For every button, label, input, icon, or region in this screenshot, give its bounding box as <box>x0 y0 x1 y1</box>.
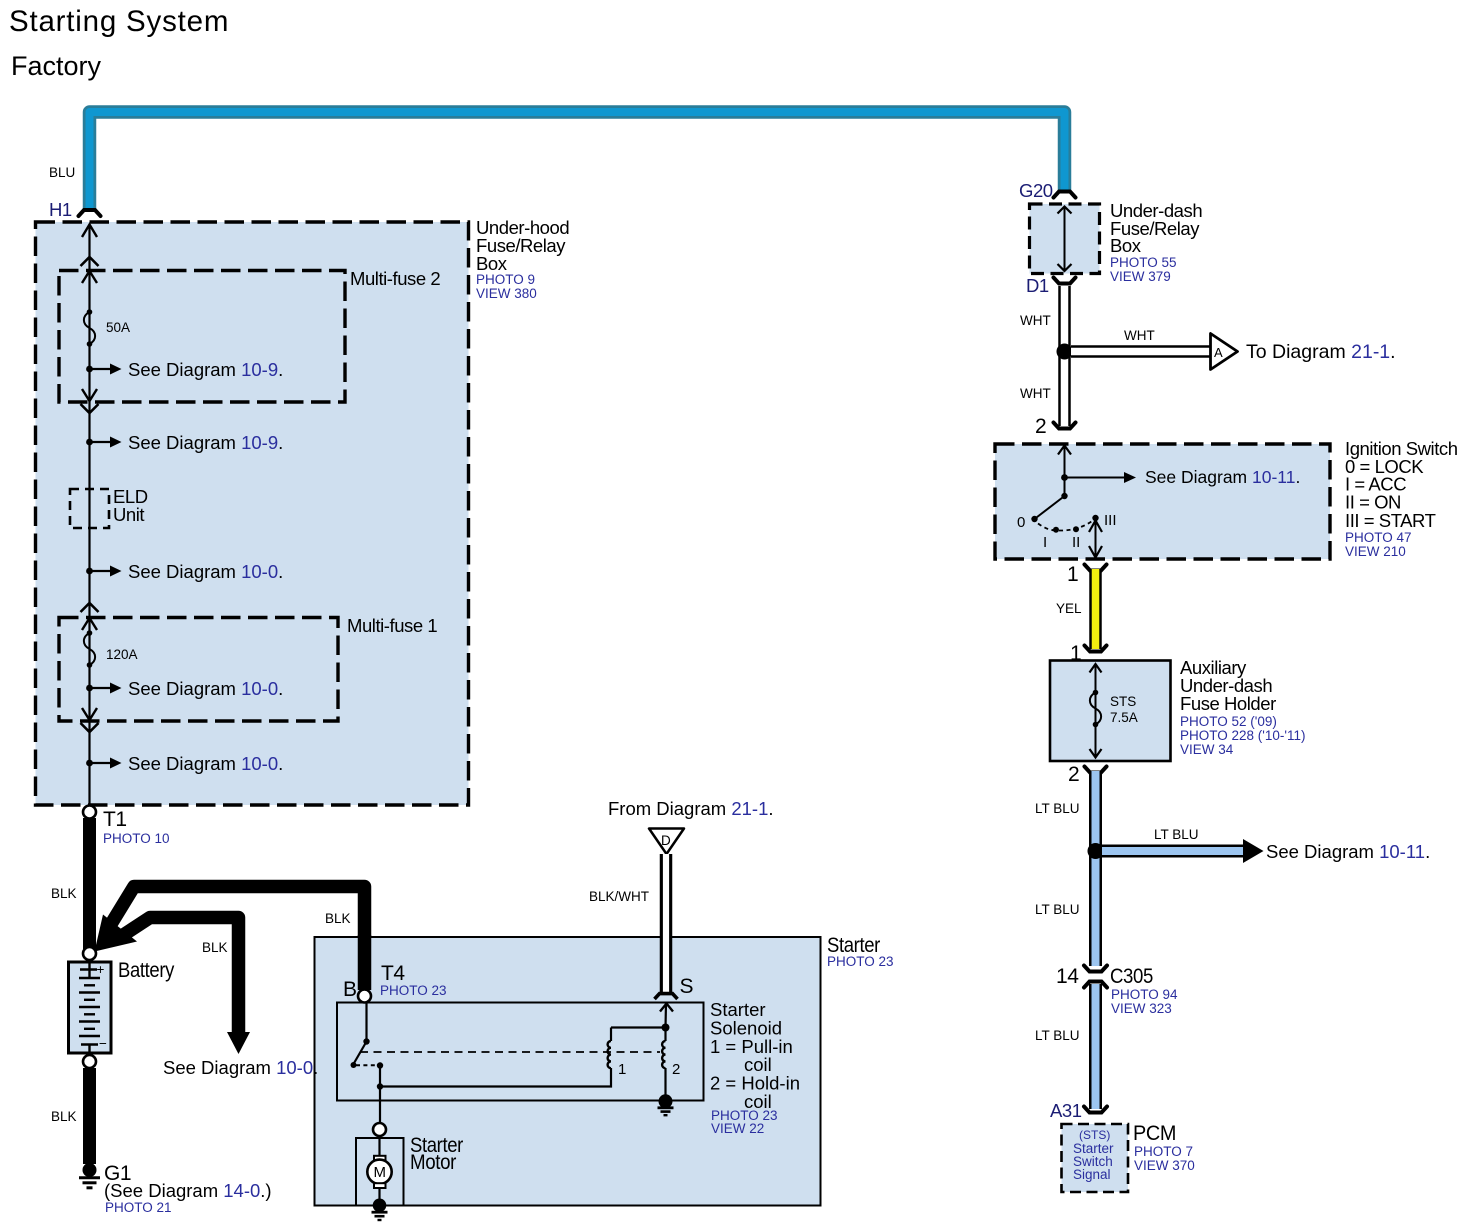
arrowhead into battery positive <box>95 915 138 952</box>
connector 2 at ignition switch <box>1035 415 1076 438</box>
svg-text:PHOTO 55: PHOTO 55 <box>1110 255 1177 270</box>
wire BLK into starter (vertical part over box) <box>358 935 372 990</box>
svg-text:PHOTO 228 ('10-'11): PHOTO 228 ('10-'11) <box>1180 728 1305 743</box>
wire hop chevron below multi-fuse 2 <box>81 404 99 413</box>
svg-text:M: M <box>374 1164 387 1181</box>
svg-text:PHOTO 23: PHOTO 23 <box>827 954 894 969</box>
svg-text:STS: STS <box>1110 694 1136 709</box>
arrowhead up below H1 <box>82 225 97 238</box>
svg-text:PHOTO 23: PHOTO 23 <box>380 983 447 998</box>
solenoid switch from B <box>351 1003 384 1090</box>
svg-text:VIEW 370: VIEW 370 <box>1134 1158 1195 1173</box>
svg-text:Unit: Unit <box>113 504 144 525</box>
wire hop chevron above multi-fuse 2 <box>81 257 99 266</box>
branch see diagram 10-0 (inside multi-fuse 1) <box>86 678 283 699</box>
svg-text:BLK/WHT: BLK/WHT <box>589 889 649 904</box>
arrowhead up inside multi-fuse 2 <box>82 271 97 283</box>
svg-text:PCM: PCM <box>1133 1122 1176 1145</box>
svg-text:C305: C305 <box>1110 965 1153 988</box>
ground at solenoid <box>658 1094 674 1115</box>
arrowhead down see diagram 10-0 <box>227 1032 250 1054</box>
under-hood fuse/relay box <box>36 217 570 805</box>
hold-in coil 2 <box>662 1028 680 1100</box>
arrowhead down inside multi-fuse 2 bottom <box>82 389 97 401</box>
svg-text:T1: T1 <box>103 808 127 831</box>
svg-text:2: 2 <box>672 1061 680 1078</box>
multi-fuse 1 box <box>59 615 437 721</box>
double arrow wire inside under-dash box <box>1058 207 1072 272</box>
svg-text:See Diagram 10-0.: See Diagram 10-0. <box>163 1057 318 1078</box>
svg-text:VIEW 323: VIEW 323 <box>1111 1001 1172 1016</box>
svg-text:−: − <box>99 1036 107 1051</box>
connector 1 at fuse holder <box>1070 642 1107 665</box>
svg-text:A31: A31 <box>1050 1100 1082 1121</box>
wire from switch down to motor <box>379 1087 381 1124</box>
svg-text:1: 1 <box>618 1061 626 1078</box>
wire BLU from H1 to G20 (thick teal) <box>90 112 1065 211</box>
solenoid actuation dashed line <box>360 1051 660 1053</box>
connector D1 <box>1026 275 1076 296</box>
starter motor box <box>356 1134 463 1206</box>
triangle connector D <box>649 829 684 855</box>
svg-text:VIEW 34: VIEW 34 <box>1180 742 1234 757</box>
svg-text:See Diagram 10-9.: See Diagram 10-9. <box>128 432 283 453</box>
svg-text:PHOTO 10: PHOTO 10 <box>103 831 170 846</box>
svg-text:II: II <box>1072 534 1080 551</box>
wire BLK battery to G1 <box>83 1068 96 1164</box>
svg-text:B: B <box>343 978 357 1001</box>
svg-text:Box: Box <box>1110 235 1142 256</box>
ground at starter motor <box>372 1199 388 1221</box>
svg-text:2: 2 <box>1035 415 1046 438</box>
svg-text:See Diagram 10-0.: See Diagram 10-0. <box>128 678 283 699</box>
battery <box>69 960 112 1053</box>
ignition switch internals <box>1017 446 1300 558</box>
wire LT BLU horizontal branch <box>1102 839 1264 863</box>
connector C305 <box>1056 965 1178 1016</box>
svg-text:LT BLU: LT BLU <box>1035 1028 1080 1043</box>
connector 2 below fuse holder <box>1068 763 1107 786</box>
branch see diagram 10-0 third <box>86 753 283 774</box>
svg-text:+: + <box>97 962 105 977</box>
svg-text:D1: D1 <box>1026 275 1049 296</box>
triangle connector A <box>1211 334 1238 370</box>
svg-text:PHOTO 9: PHOTO 9 <box>476 272 535 287</box>
connector G20 <box>1019 180 1076 201</box>
svg-text:Box: Box <box>476 253 508 274</box>
svg-text:PHOTO 94: PHOTO 94 <box>1111 987 1178 1002</box>
connector 1 below ignition <box>1067 563 1107 586</box>
connector H1 <box>49 199 101 220</box>
svg-text:WHT: WHT <box>1124 328 1155 343</box>
svg-text:Starting System: Starting System <box>9 5 229 38</box>
starter box <box>315 934 894 1206</box>
svg-text:D: D <box>661 833 671 848</box>
svg-text:VIEW 22: VIEW 22 <box>711 1121 764 1136</box>
pull-in coil 1 <box>608 1028 666 1079</box>
ignition switch box <box>995 438 1458 559</box>
svg-text:See Diagram 10-0.: See Diagram 10-0. <box>128 753 283 774</box>
svg-text:WHT: WHT <box>1020 386 1051 401</box>
PCM labels <box>1133 1122 1195 1173</box>
svg-text:VIEW 210: VIEW 210 <box>1345 544 1406 559</box>
svg-text:BLK: BLK <box>51 886 77 901</box>
auxiliary under-dash fuse holder box <box>1050 657 1305 761</box>
under-dash fuse/relay box <box>1030 200 1203 284</box>
svg-text:0: 0 <box>1017 514 1025 531</box>
fuse 50A <box>84 309 130 347</box>
connector T4 terminal B <box>343 962 447 1003</box>
svg-text:Signal: Signal <box>1073 1167 1111 1182</box>
svg-text:YEL: YEL <box>1056 601 1082 616</box>
wire WHT horizontal to A triangle <box>1071 345 1210 358</box>
svg-text:PHOTO 21: PHOTO 21 <box>105 1200 172 1215</box>
svg-text:G20: G20 <box>1019 180 1053 201</box>
svg-text:Fuse Holder: Fuse Holder <box>1180 693 1276 714</box>
wire hop chevron below multi-fuse 1 <box>81 723 99 732</box>
svg-text:1: 1 <box>1067 563 1078 586</box>
svg-text:BLK: BLK <box>202 940 228 955</box>
svg-text:14: 14 <box>1056 965 1079 988</box>
wire WHT vertical D1 to 2 <box>1058 286 1071 426</box>
svg-text:120A: 120A <box>106 647 138 662</box>
wire BLK T1 to battery <box>83 818 96 949</box>
arrowhead up inside multi-fuse 1 <box>82 618 97 630</box>
svg-text:S: S <box>680 975 694 998</box>
ELD unit box <box>70 486 148 528</box>
svg-text:From Diagram 21-1.: From Diagram 21-1. <box>608 798 774 819</box>
wire BLK branch battery to T4 <box>108 887 365 991</box>
branch see diagram 10-9 (inside multi-fuse 2) <box>86 359 283 380</box>
branch see diagram 10-0 first <box>86 561 283 582</box>
svg-text:I: I <box>1043 534 1047 551</box>
junction dot on WHT <box>1057 344 1073 360</box>
battery minus terminal <box>83 1055 96 1068</box>
svg-text:H1: H1 <box>49 199 72 220</box>
svg-text:50A: 50A <box>106 320 130 335</box>
arrowhead up at S inside solenoid <box>660 1004 673 1012</box>
svg-text:(See Diagram 14-0.): (See Diagram 14-0.) <box>104 1180 272 1201</box>
svg-text:See Diagram 10-9.: See Diagram 10-9. <box>128 359 283 380</box>
wire from switch to pull-in coil <box>380 1068 611 1087</box>
svg-text:Factory: Factory <box>11 51 102 81</box>
fuse 120A <box>84 630 138 668</box>
svg-text:Multi-fuse 2: Multi-fuse 2 <box>350 268 440 289</box>
wire YEL <box>1089 569 1102 649</box>
svg-text:PHOTO 47: PHOTO 47 <box>1345 530 1412 545</box>
svg-text:PHOTO 52 ('09): PHOTO 52 ('09) <box>1180 714 1277 729</box>
svg-text:(STS): (STS) <box>1079 1128 1110 1142</box>
wire BLK/WHT from D to S <box>660 854 673 994</box>
svg-text:BLK: BLK <box>325 911 351 926</box>
arrowhead down inside multi-fuse 1 bottom <box>82 708 97 720</box>
svg-text:LT BLU: LT BLU <box>1035 801 1080 816</box>
wire LT BLU vertical (fuse holder to C305) <box>1089 771 1102 966</box>
svg-text:Battery: Battery <box>118 959 175 982</box>
solenoid labels <box>710 999 800 1136</box>
svg-text:III: III <box>1104 512 1117 529</box>
svg-text:2: 2 <box>1068 763 1079 786</box>
PCM box <box>1062 1124 1129 1192</box>
svg-text:7.5A: 7.5A <box>1110 710 1138 725</box>
starter solenoid box <box>337 1003 704 1101</box>
wire LT BLU vertical (C305 to A31) <box>1089 984 1102 1109</box>
svg-text:Multi-fuse 1: Multi-fuse 1 <box>347 615 437 636</box>
svg-text:BLK: BLK <box>51 1109 77 1124</box>
multi-fuse 2 box <box>59 268 440 402</box>
ground G1 <box>79 1163 100 1188</box>
svg-text:A: A <box>1214 345 1223 360</box>
svg-text:LT BLU: LT BLU <box>1154 827 1199 842</box>
svg-text:BLU: BLU <box>49 165 75 180</box>
svg-text:T4: T4 <box>381 962 405 985</box>
svg-text:To Diagram 21-1.: To Diagram 21-1. <box>1246 341 1396 363</box>
svg-text:WHT: WHT <box>1020 313 1051 328</box>
wire BLK branch battery to see-diagram arrow <box>121 918 239 1035</box>
battery plus terminal <box>83 947 96 960</box>
connector S (cup at end of BLK/WHT) <box>655 975 694 999</box>
junction dot on LT BLU <box>1088 843 1104 859</box>
svg-text:See Diagram 10-11.: See Diagram 10-11. <box>1145 467 1300 487</box>
connector A31 <box>1050 1100 1107 1121</box>
starter motor M <box>367 1136 391 1203</box>
svg-text:VIEW 379: VIEW 379 <box>1110 269 1171 284</box>
svg-text:LT BLU: LT BLU <box>1035 902 1080 917</box>
wire vertical inside under-hood box <box>88 224 90 808</box>
connector T1 <box>83 806 170 847</box>
fuse STS 7.5A <box>1090 664 1138 758</box>
G1 labels <box>104 1162 272 1215</box>
svg-text:VIEW 380: VIEW 380 <box>476 286 537 301</box>
svg-text:III = START: III = START <box>1345 510 1436 531</box>
branch see diagram 10-9 second <box>86 432 283 453</box>
svg-text:PHOTO 7: PHOTO 7 <box>1134 1144 1193 1159</box>
motor top terminal <box>373 1123 386 1136</box>
svg-text:Motor: Motor <box>410 1151 456 1174</box>
wire hop chevron above multi-fuse 1 <box>81 603 99 612</box>
svg-text:See Diagram 10-0.: See Diagram 10-0. <box>128 561 283 582</box>
svg-text:See Diagram 10-11.: See Diagram 10-11. <box>1266 841 1430 862</box>
